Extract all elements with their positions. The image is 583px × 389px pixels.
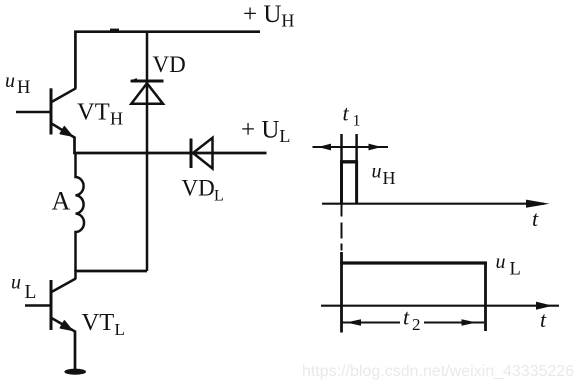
svg-text:VD: VD [153, 52, 186, 77]
pulse u_H top bar [340, 160, 358, 163]
dashed reference line [341, 204, 343, 217]
ground symbol [64, 369, 86, 375]
svg-text:H: H [17, 78, 30, 98]
extension line right of t1 [355, 134, 358, 163]
transistor VT_L collector diagonal [52, 279, 76, 293]
pulse u_L top bar [340, 261, 487, 264]
svg-text:1: 1 [353, 113, 361, 130]
wire: +UH top rail [75, 30, 261, 33]
transistor VT_H base bar [50, 88, 53, 134]
dimension arrow t2 left [346, 319, 361, 326]
svg-text:A: A [52, 187, 71, 216]
dimension line t1 [313, 146, 389, 148]
svg-text:L: L [115, 320, 125, 339]
inductor A coil [76, 153, 85, 271]
pulse u_H left edge [340, 161, 343, 204]
diode VD cathode bar [131, 80, 164, 83]
svg-text:u: u [11, 272, 21, 294]
svg-text:H: H [383, 168, 396, 188]
svg-text:2: 2 [412, 315, 421, 334]
diode VD_L cathode bar [190, 139, 193, 169]
svg-text:L: L [25, 282, 37, 303]
svg-text:VT: VT [77, 99, 110, 126]
diode VD triangle [131, 83, 163, 104]
svg-text:VD: VD [182, 176, 215, 201]
svg-text:t: t [532, 206, 539, 231]
diode VD_L triangle [193, 138, 213, 169]
axis: lower time axis with arrow [321, 305, 559, 307]
wire: VT_L emitter lead down [74, 331, 77, 371]
svg-text:u: u [496, 251, 506, 273]
wire: VT_H base lead [16, 111, 51, 114]
wire: VT_H collector riser [74, 31, 77, 89]
axis: upper time axis with arrow [322, 203, 544, 205]
svg-text:+ UL: + UL [241, 117, 290, 147]
pulse u_L right edge [484, 262, 487, 332]
transistor VT_L base bar [50, 280, 53, 330]
wire: scan nub on top rail [110, 29, 119, 32]
svg-text:+ UH: + UH [243, 1, 294, 31]
dimension line t2 [343, 321, 401, 323]
svg-text:t: t [343, 101, 350, 126]
wire: bottom junction horizontal [74, 270, 147, 273]
wire: junction to VT_L collector [74, 270, 77, 279]
pulse u_L left edge [340, 252, 343, 333]
wire: +UL node line [73, 152, 266, 155]
svg-text:t: t [540, 307, 547, 332]
wire: VT_H emitter lead down [73, 137, 76, 155]
svg-text:L: L [510, 260, 521, 280]
svg-text:L: L [214, 188, 224, 205]
wire: VT_L base lead [25, 304, 51, 307]
pulse u_H right edge [355, 161, 358, 204]
transistor VT_H collector diagonal [52, 88, 77, 102]
svg-text:u: u [5, 70, 15, 92]
svg-text:H: H [110, 109, 123, 129]
extension line left of t1 [340, 134, 343, 163]
wire: VD branch vertical [146, 32, 149, 271]
dimension arrow t1 left [318, 144, 331, 151]
svg-text:VT: VT [82, 309, 115, 336]
transistor VT_H emitter diagonal with arrow [52, 124, 75, 138]
dimension arrow t2 right [462, 319, 477, 326]
svg-text:t: t [403, 305, 410, 330]
transistor VT_L emitter diagonal with arrow [52, 318, 76, 332]
dimension arrow t1 right [369, 144, 382, 151]
svg-text:https://blog.csdn.net/weixin_4: https://blog.csdn.net/weixin_43335226 [302, 363, 574, 380]
svg-text:u: u [372, 161, 382, 183]
